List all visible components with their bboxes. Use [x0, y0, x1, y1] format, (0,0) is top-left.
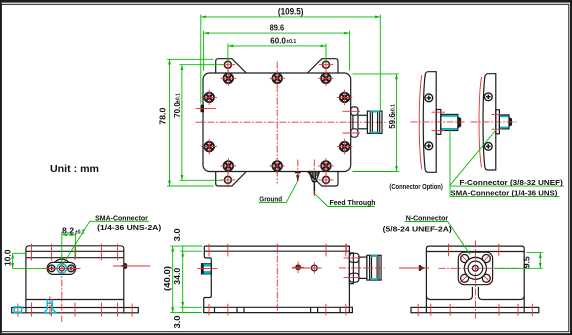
dimension 59.6 ±0.1: [353, 74, 399, 172]
red base ticks: [32, 303, 118, 317]
N neck: [359, 257, 367, 278]
N connector post centerlines: [343, 111, 361, 133]
SMA jack centerlines: [43, 267, 81, 269]
mounting ear top-right: [307, 59, 338, 73]
F option: flange plate: [436, 110, 441, 135]
ground pin: [295, 172, 301, 181]
SMA option: barrel: [499, 115, 509, 129]
N flange post lower: [349, 273, 359, 282]
svg-text:SMA-Connector: SMA-Connector: [95, 214, 148, 223]
svg-text:(1/4-36 UNS-2A): (1/4-36 UNS-2A): [97, 223, 162, 232]
N post ticks: [344, 258, 361, 278]
lid screw right column: [337, 90, 353, 106]
mounting ear top-left: [216, 59, 247, 73]
N axis centerline: [339, 267, 385, 269]
F option: barrel: [441, 114, 458, 130]
svg-text:(109.5): (109.5): [278, 7, 304, 17]
dimension 78.0: [158, 59, 214, 186]
SMA option: red cast edge arc: [479, 77, 481, 168]
svg-text:10.0: 10.0: [3, 249, 12, 266]
body bottom line: [26, 299, 124, 301]
lid line: [426, 251, 524, 253]
lid screw top row: [221, 71, 237, 87]
F option: centerline: [411, 121, 465, 123]
svg-text:59.6: 59.6: [387, 113, 397, 129]
N connector neck: [358, 115, 367, 129]
svg-text:70.0: 70.0: [172, 102, 182, 118]
SMA option: barrel end cap: [509, 117, 512, 127]
F option: barrel end cap: [458, 116, 461, 128]
N connector cyan faces: [370, 111, 379, 113]
N connector barrel knurl lines: [370, 112, 379, 134]
SMA center jack: [57, 264, 66, 273]
SMA option: screw upper: [484, 93, 492, 101]
red screw ticks base: [209, 304, 346, 315]
svg-text:89.6: 89.6: [270, 23, 285, 33]
SMA flange screw right: [66, 265, 77, 272]
ear screw bottom-right: [319, 173, 334, 188]
SMA pin on left wall: [201, 105, 205, 113]
dimension 9.5: [494, 253, 543, 269]
svg-text:60.0: 60.0: [270, 35, 286, 45]
SMA flange screw left: [46, 265, 57, 272]
lid line: [26, 250, 124, 252]
svg-text:(Connector Option): (Connector Option): [389, 182, 443, 191]
red foot centerlines: [418, 304, 532, 316]
N connector flange plate: [349, 253, 353, 284]
mounting ear bottom-left: [216, 172, 247, 187]
base strip: [204, 307, 353, 312]
red center vertical: [276, 244, 278, 315]
svg-text:3.0: 3.0: [173, 228, 182, 242]
red screw ticks top edge: [209, 244, 346, 257]
red vertical centerline: [276, 62, 278, 184]
N label leader: [448, 222, 470, 255]
F option: end plate profile: [423, 72, 436, 173]
red screw ticks top: [449, 244, 499, 257]
ground leader and label: [259, 182, 298, 204]
SMA option: centerline: [471, 121, 517, 123]
red horizontal centerline (connector axis): [196, 121, 386, 123]
dimension 8.2 ±0.1: [62, 227, 85, 261]
connecting centerline: [292, 267, 322, 269]
dimension 89.6: [204, 23, 350, 71]
N jack circles: [464, 257, 486, 279]
F option: screw upper: [425, 94, 433, 102]
dimension stack left: 3.0 top: [173, 228, 202, 251]
svg-text:(5/8-24 UNEF-2A): (5/8-24 UNEF-2A): [383, 224, 453, 233]
feed through centerline: [313, 160, 315, 171]
SMA option: flange plate: [496, 110, 500, 134]
N connector flange post lower: [351, 129, 358, 137]
body outline with left notch: [204, 246, 350, 313]
F option: screw lower: [425, 142, 433, 150]
top view body outline: [203, 73, 351, 172]
right edge screw tick: [345, 244, 347, 253]
base plate: [12, 308, 139, 313]
N connector seen edge-on (arrow right): [119, 263, 149, 269]
SMA pin centerline: [196, 107, 217, 109]
N connector flange post upper: [351, 107, 358, 115]
N flange square: [458, 252, 492, 285]
dimension 34.0: [173, 251, 183, 307]
cyan foot insert: [14, 307, 21, 312]
svg-text:F-Connector (3/8-32 UNEF): F-Connector (3/8-32 UNEF): [459, 178, 563, 187]
SMA connector side-on at left: [202, 264, 212, 274]
body outline: [426, 246, 524, 307]
N connector barrel: [367, 111, 382, 133]
F option: red cast edge arc: [419, 75, 422, 170]
foot separation lines: [426, 307, 524, 312]
svg-text:Unit : mm: Unit : mm: [50, 164, 99, 175]
dimension 70.0 ±0.1: [172, 65, 222, 181]
svg-text:±0.1: ±0.1: [391, 104, 397, 114]
ear screw bottom-left: [221, 173, 236, 188]
N edge-on centerline: [113, 265, 151, 267]
SMA connector seen edge-on (arrow left): [403, 265, 426, 271]
red screw ticks on lid: [32, 244, 118, 261]
ear screw top-right: [319, 57, 334, 72]
F option: flange tick lines: [432, 112, 446, 130]
mounting ear bottom-right: [307, 172, 338, 187]
svg-text:78.0: 78.0: [158, 107, 168, 124]
ground pin centerline: [297, 160, 299, 184]
svg-text:SMA-Connector (1/4-36 UNS): SMA-Connector (1/4-36 UNS): [451, 188, 558, 197]
SMA edge-on centerline: [399, 267, 429, 269]
red centerline of mounting symbol: [49, 296, 51, 317]
dimension (40.0): [163, 246, 202, 313]
svg-text:±0.1: ±0.1: [176, 93, 182, 103]
red base ticks: [431, 304, 518, 316]
N jack centerlines: [439, 267, 521, 269]
base plate: [411, 307, 539, 312]
feed through hole: [311, 265, 317, 271]
SMA option: end plate profile: [483, 74, 496, 170]
red foot centerlines: [18, 304, 132, 317]
svg-text:(40.0): (40.0): [163, 266, 172, 291]
body outline: [26, 246, 124, 308]
N connector flange plate edge: [352, 115, 354, 129]
svg-text:3.0: 3.0: [173, 315, 182, 329]
body step line: [26, 257, 124, 259]
option label leaders: [450, 130, 564, 197]
feed through leader and label: [315, 194, 376, 207]
lid line: [204, 250, 349, 252]
SMA option: screw lower: [484, 143, 492, 151]
svg-text:Feed Through: Feed Through: [330, 198, 376, 207]
ear screw top-left: [221, 57, 236, 72]
lid screw bottom row: [221, 158, 237, 174]
N flange post upper: [349, 253, 359, 262]
dimension 10.0: [3, 249, 46, 268]
svg-text:N-Connector: N-Connector: [406, 214, 448, 223]
svg-text:Ground: Ground: [259, 194, 282, 203]
feed through funnel: [309, 172, 320, 195]
N barrel: [367, 255, 381, 280]
body bottom line with fillets: [426, 287, 524, 300]
svg-text:±0.1: ±0.1: [286, 39, 296, 45]
SMA side centerline: [197, 268, 217, 270]
foot separation lines: [26, 308, 124, 313]
SMA flange outline: [55, 259, 69, 262]
base slot ticks: [215, 307, 341, 312]
svg-text:34.0: 34.0: [173, 267, 182, 285]
dimension 60.0 ±0.1: [228, 35, 326, 61]
svg-text:9.5: 9.5: [523, 256, 532, 269]
dimension 3.0 bottom: [173, 307, 202, 328]
ground screw (filled): [295, 264, 301, 270]
svg-text:8.2: 8.2: [62, 227, 75, 236]
dimension (109.5): [201, 7, 380, 111]
cyan mounting symbol: [44, 299, 57, 313]
corner screw red diagonals: [460, 254, 491, 283]
N flange corner screws: [461, 255, 469, 263]
SMA label leader: [63, 221, 149, 264]
SMA option: flange tick lines: [492, 115, 503, 130]
lid screw left column: [201, 90, 217, 106]
